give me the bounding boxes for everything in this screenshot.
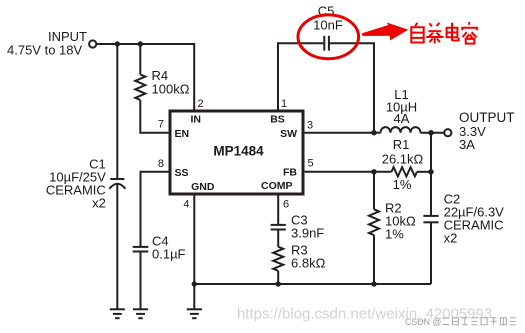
label L1 value (386, 87, 417, 126)
svg-text:3.9nF: 3.9nF (291, 225, 324, 240)
wire R3 to ground rail (277, 271, 279, 284)
capacitor C1 (109, 179, 125, 309)
svg-text:SS: SS (175, 167, 189, 179)
svg-text:4: 4 (183, 199, 189, 211)
junction SW-C5 (371, 130, 376, 135)
label C2 value (444, 192, 505, 246)
label C1 value (46, 157, 106, 211)
glyph zi (411, 23, 423, 43)
svg-text:6: 6 (283, 199, 289, 211)
wire R4 branch (139, 44, 141, 75)
label C3 value (291, 213, 324, 241)
resistor R2 (369, 209, 379, 235)
svg-text:EN: EN (175, 128, 190, 140)
glyph dian (447, 23, 459, 41)
capacitor C4 (133, 247, 149, 309)
svg-text:3A: 3A (459, 137, 475, 152)
wire GND pin 4 down (193, 195, 195, 309)
svg-text:IN: IN (190, 114, 201, 126)
svg-text:COMP: COMP (261, 180, 293, 192)
ground C4 (133, 309, 148, 318)
wire SW pin 3 (305, 132, 381, 134)
label R1 value (382, 137, 424, 192)
wire L1 to output (421, 132, 444, 134)
resistor R4 (135, 75, 145, 100)
svg-text:1%: 1% (385, 227, 404, 242)
label R4 value (152, 68, 190, 97)
svg-text:26.1kΩ: 26.1kΩ (382, 152, 424, 167)
svg-text:SW: SW (280, 128, 297, 140)
svg-text:x2: x2 (92, 196, 106, 211)
svg-text:1%: 1% (393, 177, 412, 192)
capacitor C5 (324, 36, 329, 51)
svg-text:5: 5 (308, 158, 314, 170)
svg-text:OUTPUT: OUTPUT (459, 110, 515, 125)
svg-text:https://blog.csdn.net/weixin_4: https://blog.csdn.net/weixin_42005993 (237, 305, 492, 322)
svg-text:10nF: 10nF (313, 18, 343, 33)
svg-text:R1: R1 (393, 137, 410, 152)
svg-text:8: 8 (158, 158, 164, 170)
wire output node down to C2 (430, 133, 432, 216)
glyph ju (426, 23, 443, 44)
junction rail-R2 (371, 281, 376, 286)
junction output node (428, 130, 433, 135)
watermark csdn user (405, 317, 516, 327)
ground GND pin (187, 309, 202, 318)
svg-text:MP1484: MP1484 (213, 144, 264, 159)
resistor R1 (392, 167, 417, 176)
svg-text:4A: 4A (394, 111, 410, 126)
svg-text:100kΩ: 100kΩ (152, 81, 190, 96)
junction FB-R2 (371, 169, 376, 174)
svg-text:x2: x2 (444, 231, 458, 246)
junction input-C1 (115, 41, 120, 46)
terminal input circle (89, 40, 96, 47)
wire R2 to ground rail (373, 235, 375, 284)
svg-text:GND: GND (191, 181, 215, 193)
junction rail-R3 (276, 281, 281, 286)
svg-text:CSDN @: CSDN @ (405, 317, 441, 327)
wire FB pin 5 (305, 171, 392, 173)
red annotation arrow (362, 23, 408, 41)
glyph rong (462, 22, 477, 44)
wire COMP pin 6 to C3 (277, 195, 279, 225)
wire input top rail (97, 44, 195, 110)
wire R1 to output node (417, 171, 431, 173)
ground C1 (110, 309, 125, 318)
svg-text:0.1µF: 0.1µF (152, 247, 186, 262)
wire C5 right to SW node (329, 43, 374, 133)
svg-text:3: 3 (307, 120, 313, 132)
red ellipse highlight around C5 (298, 15, 359, 59)
junction rail-GND (192, 281, 197, 286)
label OUTPUT (459, 110, 515, 152)
wire bottom ground rail (194, 283, 431, 285)
svg-text:7: 7 (158, 119, 164, 131)
junction R1-output (428, 169, 433, 174)
svg-text:2: 2 (198, 98, 204, 110)
svg-text:1: 1 (281, 98, 287, 110)
label C4 value (152, 234, 186, 262)
wire R4 to EN pin 7 (140, 100, 168, 133)
wire FB node down to R2 (373, 172, 375, 210)
capacitor C3 (271, 225, 286, 247)
op-amp U1 MP1484 IC body (170, 111, 303, 194)
svg-text:FB: FB (283, 167, 297, 179)
junction input-R4 (138, 41, 143, 46)
label R2 value (385, 201, 416, 242)
inductor L1 (381, 127, 421, 133)
resistor R3 (273, 247, 283, 271)
wire SS pin 8 to C4 (141, 172, 169, 247)
svg-text:6.8kΩ: 6.8kΩ (291, 255, 326, 270)
wire BS pin 1 to C5 (278, 43, 324, 110)
svg-text:4.75V to 18V: 4.75V to 18V (7, 43, 82, 58)
terminal output circle (444, 129, 451, 136)
svg-text:BS: BS (270, 114, 285, 126)
capacitor C2 (423, 216, 438, 284)
wire C1 branch (116, 44, 118, 179)
label R3 value (291, 243, 326, 271)
red annotation text zi ju dian rong (bootstrap capacitor) (411, 22, 477, 44)
label C5 value (313, 4, 343, 33)
